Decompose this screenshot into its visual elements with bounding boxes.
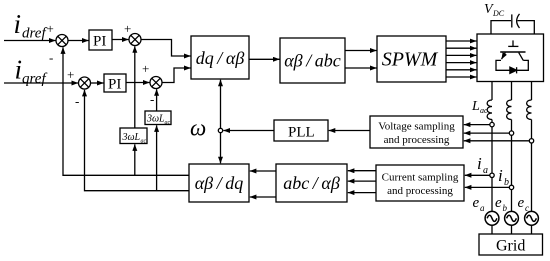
summer S4: [150, 77, 162, 89]
svg-text:ω: ω: [190, 116, 206, 141]
svg-text:DC: DC: [492, 9, 505, 18]
IGBT collector lead: [512, 40, 514, 46]
wire PI1 to summer S2: [112, 39, 129, 41]
phase line b to node: [511, 120, 513, 132]
wires SPWM to inverter (6 gate signals): [446, 41, 476, 77]
svg-text:e: e: [495, 195, 502, 211]
wire current sampling to abc/ab 1: [348, 170, 376, 172]
node Vc: [529, 139, 533, 143]
block 3wL A: [120, 128, 147, 145]
svg-text:ac: ac: [141, 139, 147, 145]
wire 3wL B to S4: [156, 89, 158, 111]
svg-text:e: e: [518, 195, 525, 211]
phase line c to node: [531, 120, 533, 139]
phase line c lower: [531, 143, 533, 212]
block voltage sampling: [370, 116, 463, 148]
wire node Vb to voltage sampling: [464, 132, 510, 134]
label V_DC: [484, 2, 505, 18]
svg-text:i: i: [15, 55, 23, 85]
summer S2: [129, 34, 141, 46]
label i_b: [498, 166, 509, 188]
IGBT gate bar: [508, 45, 518, 47]
svg-text:i: i: [477, 154, 482, 173]
wire ab/abc to SPWM 2: [345, 67, 377, 69]
wire eb to grid: [511, 225, 513, 234]
AC source eb: [505, 211, 519, 225]
svg-text:SPWM: SPWM: [382, 49, 439, 71]
svg-text:αβ / dq: αβ / dq: [195, 173, 244, 193]
phase line b mid: [511, 135, 513, 185]
wire S3 to PI2: [91, 82, 104, 84]
svg-text:+: +: [67, 67, 74, 82]
inductor La: [487, 100, 492, 120]
svg-text:+: +: [124, 21, 131, 36]
wire voltage sampling to PLL: [329, 130, 370, 132]
node ib: [509, 185, 513, 189]
wire i_qref input: [4, 82, 78, 84]
summer S3: [79, 77, 91, 89]
wire DC link right: [518, 21, 535, 34]
block abc/alphabeta: [276, 164, 347, 202]
IGBT body bar: [500, 51, 525, 53]
block SPWM: [377, 36, 446, 82]
svg-text:3ωL: 3ωL: [146, 114, 165, 125]
svg-text:ac: ac: [165, 120, 171, 126]
svg-text:αβ / abc: αβ / abc: [284, 51, 341, 71]
feedback wire id to S1: [63, 47, 189, 175]
wire PI2 to summer S4: [126, 82, 150, 84]
diode D: [510, 67, 517, 73]
svg-text:e: e: [473, 195, 480, 211]
block 3wL B: [145, 111, 171, 126]
block Grid: [479, 234, 543, 255]
phase line a lower: [491, 177, 493, 211]
svg-text:PLL: PLL: [288, 125, 315, 141]
wire i_dref input: [4, 40, 56, 42]
svg-text:3ωL: 3ωL: [122, 132, 141, 143]
svg-text:abc / αβ: abc / αβ: [283, 173, 340, 193]
PI controller PI1: [89, 30, 112, 50]
svg-text:Voltage sampling: Voltage sampling: [378, 121, 455, 133]
wire node ib to current sampling: [465, 186, 510, 188]
phase line a mid: [491, 127, 493, 174]
wire ea to grid: [491, 225, 493, 234]
feedback wire iq to S3: [85, 90, 190, 191]
svg-text:i: i: [498, 166, 503, 185]
inverter box: [477, 34, 544, 82]
wire node Va to voltage sampling: [464, 124, 490, 126]
wire S4 to dq/ab block: [162, 68, 191, 83]
block current sampling: [376, 165, 464, 201]
label i_qref: [15, 55, 48, 88]
phase line a to node: [491, 120, 493, 123]
AC source ea: [485, 211, 499, 225]
svg-text:and processing: and processing: [384, 134, 450, 146]
block alphabeta/dq: [189, 164, 249, 202]
svg-text:+: +: [142, 61, 149, 76]
block alphabeta/abc: [280, 38, 345, 83]
phase line c upper: [531, 82, 533, 101]
wire ec to grid: [531, 225, 533, 234]
wire current sampling to abc/ab 2: [348, 180, 376, 182]
wire omega to dq/ab: [220, 80, 222, 129]
svg-text:dref: dref: [22, 26, 47, 42]
svg-text:i: i: [14, 9, 22, 39]
wire S1 to PI1: [68, 40, 89, 42]
wire abc/ab to ab/dq 2: [250, 196, 276, 198]
label i_a: [477, 154, 488, 176]
node omega: [218, 128, 222, 132]
IGBT emitter arrow: [502, 53, 506, 60]
PI controller PI2: [104, 74, 126, 93]
wire dq/ab to ab/abc: [249, 58, 280, 60]
label e_a: [473, 195, 486, 213]
freewheel diode loop: [496, 60, 528, 70]
inductor Lb: [507, 100, 512, 120]
branch wire id to 3wL box A: [134, 144, 136, 175]
svg-text:b: b: [503, 203, 508, 213]
phase line b upper: [511, 82, 513, 101]
wire ab/abc to SPWM 1: [345, 50, 377, 52]
wire DC link left: [491, 21, 511, 34]
svg-text:-: -: [75, 94, 79, 109]
svg-text:Current sampling: Current sampling: [382, 172, 459, 184]
svg-text:+: +: [47, 21, 54, 36]
label e_c: [518, 195, 530, 213]
wire abc/ab to ab/dq 1: [250, 170, 276, 172]
wire omega to ab/dq: [220, 133, 222, 164]
wire S2 to dq/ab block: [141, 40, 191, 57]
svg-text:Grid: Grid: [496, 238, 525, 255]
svg-text:a: a: [483, 165, 488, 176]
wire node ia to current sampling: [465, 174, 490, 176]
node Va: [490, 122, 494, 126]
svg-text:b: b: [504, 177, 509, 188]
capacitor plate straight: [511, 14, 513, 27]
svg-text:L: L: [471, 99, 480, 114]
node ia: [490, 173, 494, 177]
svg-text:PI: PI: [93, 34, 106, 50]
svg-text:PI: PI: [108, 77, 121, 93]
phase line a upper: [491, 82, 493, 101]
wire current sampling to abc/ab 3: [348, 192, 376, 194]
block dq/alphabeta: [191, 36, 249, 79]
svg-text:and processing: and processing: [387, 185, 453, 197]
capacitor plate curved: [517, 14, 520, 28]
label i_dref: [14, 9, 48, 42]
wire 3wL A to S2: [134, 46, 136, 128]
phase line b lower: [511, 189, 513, 211]
svg-text:-: -: [49, 50, 53, 65]
wire node Vc to voltage sampling: [464, 140, 530, 142]
node Vb: [509, 131, 513, 135]
block PLL: [274, 120, 328, 141]
svg-text:a: a: [480, 203, 485, 213]
inductor Lc: [527, 100, 532, 120]
svg-text:qref: qref: [22, 71, 47, 87]
label L_ac: [471, 99, 488, 115]
wire PLL to omega node: [223, 130, 274, 132]
svg-text:dq / αβ: dq / αβ: [196, 48, 245, 68]
branch wire iq to 3wL box B: [156, 125, 158, 190]
IGBT collector slant: [519, 53, 524, 61]
svg-text:-: -: [150, 92, 154, 107]
label e_b: [495, 195, 508, 213]
summer S1: [56, 35, 68, 47]
AC source ec: [525, 211, 539, 225]
